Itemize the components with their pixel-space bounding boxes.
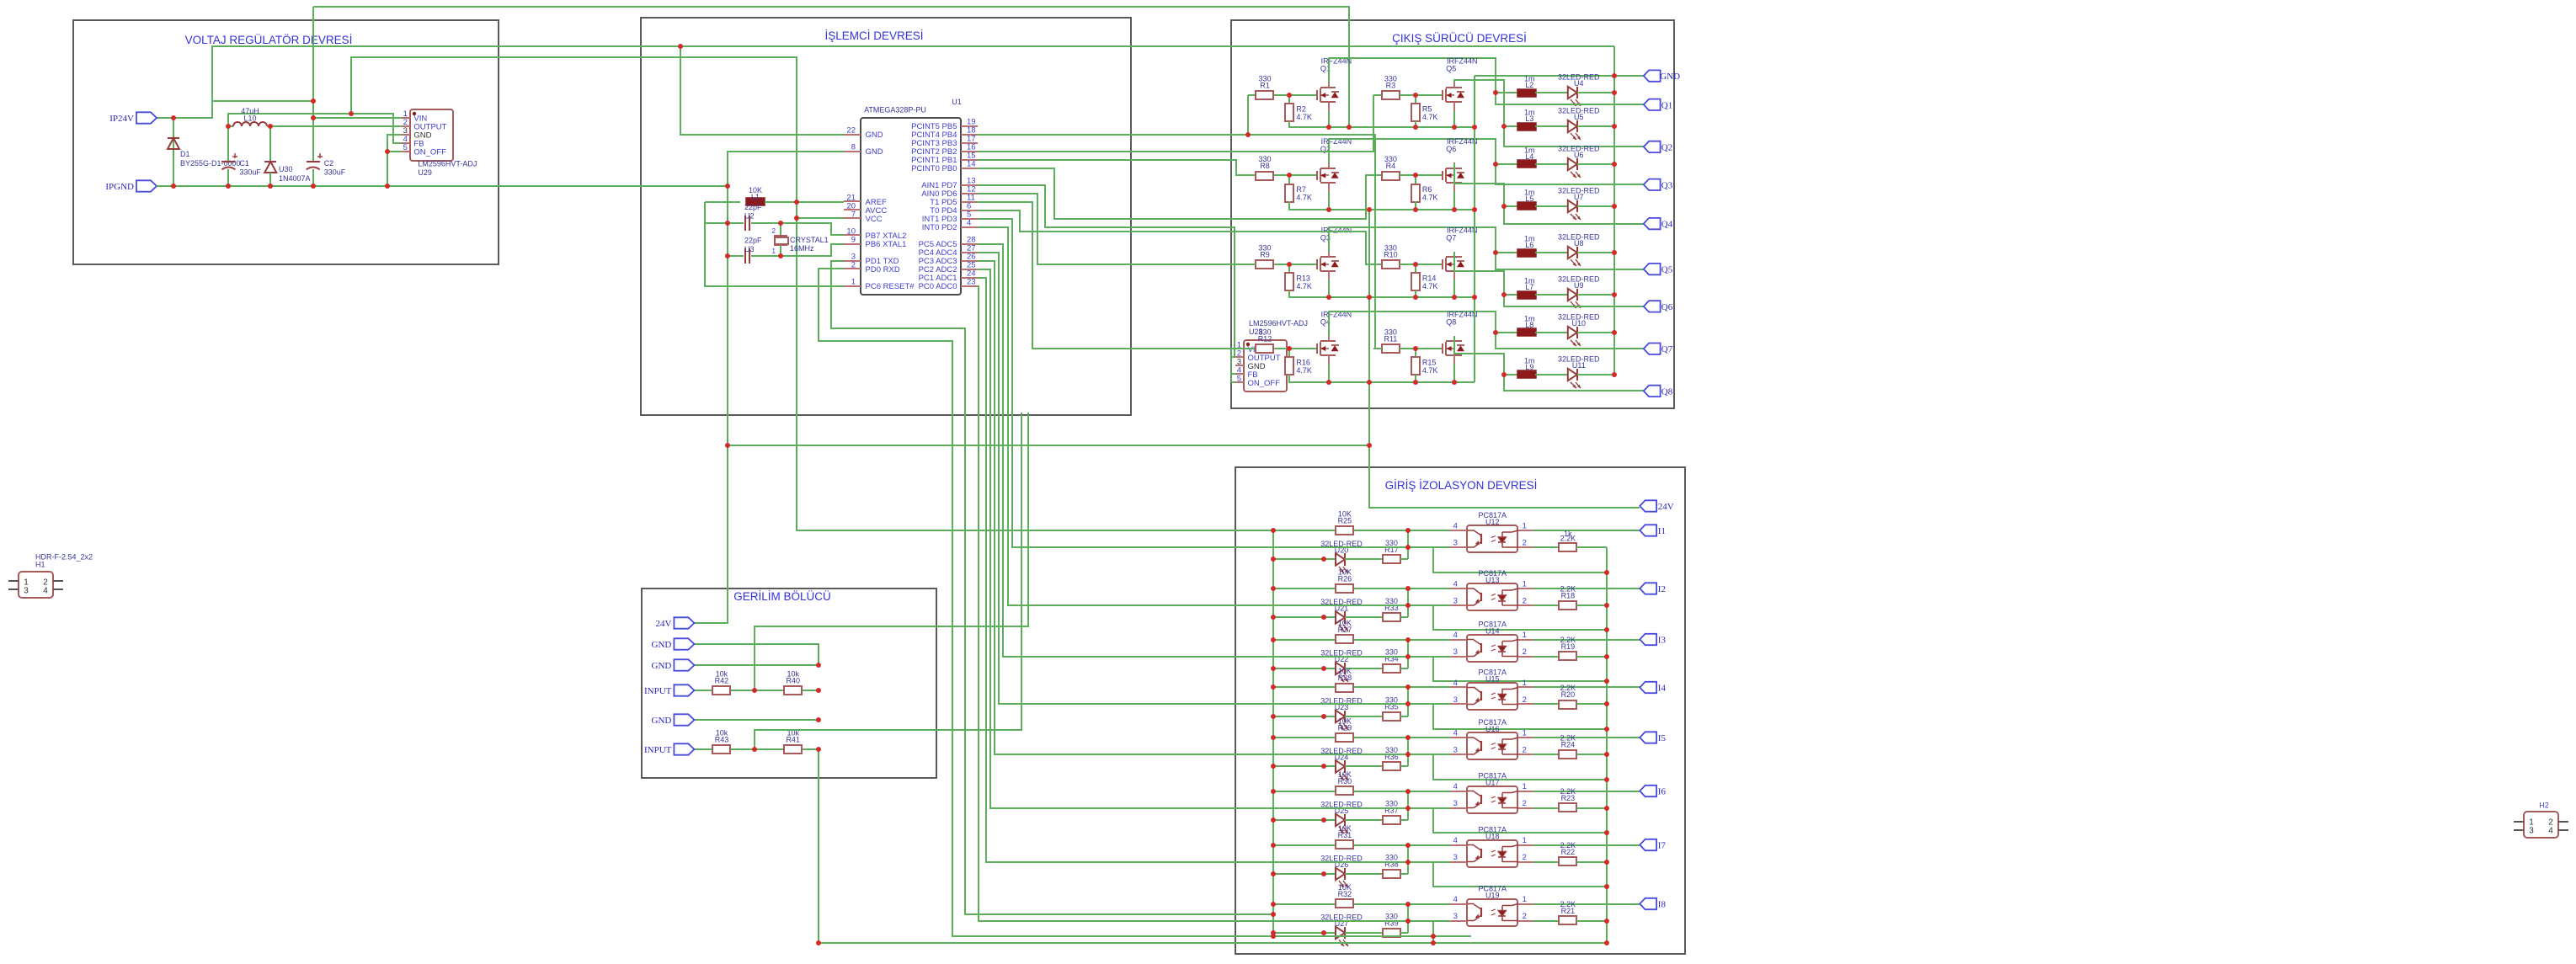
- svg-text:R23: R23: [1561, 794, 1576, 802]
- wire 2.2K to right bus: [1576, 861, 1607, 863]
- pin 14 PCINT0 PB0 U1: [961, 168, 978, 169]
- pin 4 INT0 PD2 U1: [961, 226, 978, 228]
- node dist-rail3: [1367, 295, 1372, 300]
- node source rail Q2: [1326, 207, 1331, 212]
- wire GND1: [694, 644, 819, 665]
- svg-text:R3: R3: [1386, 82, 1396, 90]
- resistor R16: [1285, 357, 1293, 375]
- capacitor C2: [307, 161, 320, 162]
- wire pulldown top R13: [1288, 264, 1290, 273]
- wire mid distribution bus: [1368, 210, 1370, 445]
- svg-text:GND: GND: [652, 661, 672, 671]
- wire opto pin2 to 2.2K: [1533, 861, 1559, 863]
- wire output port link L2: [1496, 93, 1644, 104]
- node LED anode U22: [1321, 666, 1326, 671]
- svg-text:R14: R14: [1422, 274, 1437, 282]
- wire to opto pin4: [1354, 686, 1408, 688]
- node collector U19: [1405, 902, 1411, 907]
- LED U21: [1336, 611, 1345, 623]
- wire source Q7 to rail: [1453, 280, 1455, 297]
- svg-text:22pF: 22pF: [744, 203, 762, 211]
- svg-text:4: 4: [1453, 895, 1458, 904]
- resistor R2: [1285, 104, 1293, 121]
- svg-text:2.2K: 2.2K: [1560, 535, 1576, 543]
- node bottom-loop8: [1431, 940, 1436, 945]
- resistor R31: [1336, 840, 1353, 849]
- svg-text:GND: GND: [652, 716, 672, 726]
- wire source Q5 to rail: [1453, 111, 1455, 127]
- wire 24Vout rail to processor and isolation bus: [351, 57, 1273, 530]
- wire gate feed row4 left: [1248, 348, 1256, 349]
- junction IPGND x=460: [385, 184, 390, 189]
- svg-text:2: 2: [1523, 853, 1527, 862]
- wire 10K row R26: [1273, 588, 1336, 589]
- svg-text:4: 4: [967, 219, 971, 228]
- svg-text:U9: U9: [1574, 281, 1584, 290]
- resistor R41: [784, 745, 802, 754]
- block frame: İŞLEMCİ DEVRESİ: [641, 18, 1131, 415]
- wire PD4 to Q7 gate: [978, 210, 1373, 264]
- wire LED row L3: [1504, 125, 1517, 127]
- wire LED row L5: [1504, 205, 1517, 207]
- svg-text:1: 1: [1523, 522, 1527, 531]
- svg-text:L7: L7: [1525, 283, 1533, 291]
- node LED-GND U6: [1612, 162, 1617, 167]
- optocoupler U15 PC817A: [1467, 683, 1517, 710]
- wire output port link L5: [1504, 206, 1644, 224]
- node FB-L10: [226, 124, 231, 129]
- wire VIN vertical to C2: [312, 7, 314, 162]
- node gnd bus 855: [816, 717, 821, 722]
- wire R42-R40: [731, 690, 784, 691]
- node xtal1 junction: [778, 253, 783, 258]
- svg-text:L2: L2: [1525, 81, 1533, 89]
- capacitor U2: [744, 216, 746, 231]
- node bus LED U20: [1271, 557, 1276, 562]
- pin 19 PCINT5 PB5 U1: [961, 125, 978, 127]
- capacitor C1: [221, 161, 235, 162]
- wire PD1 TXD route: [831, 261, 1273, 914]
- wire pulldown top R7: [1288, 175, 1290, 184]
- svg-text:R38: R38: [1384, 860, 1399, 868]
- wire 2.2K to right bus: [1576, 656, 1607, 658]
- wire opto pin2 to 2.2K: [1533, 546, 1559, 548]
- svg-text:4: 4: [1453, 836, 1458, 845]
- capacitor C1 branch: [227, 126, 229, 162]
- junction IPGND x=271.4: [226, 184, 231, 189]
- wire opto pin2 to 2.2K: [1533, 754, 1559, 755]
- wire opto pin1 to port: [1533, 639, 1640, 641]
- resistor R22: [1559, 857, 1576, 865]
- resistor R12: [1256, 344, 1273, 353]
- wire drain Q1: [1329, 58, 1496, 93]
- node loop U15: [1604, 727, 1609, 732]
- block frame: GERİLİM BÖLÜCÜ: [642, 589, 936, 778]
- svg-text:İŞLEMCİ DEVRESİ: İŞLEMCİ DEVRESİ: [824, 29, 923, 42]
- node U30 top: [268, 124, 273, 129]
- svg-text:I8: I8: [1658, 900, 1667, 910]
- wire source Q1 to rail: [1328, 111, 1330, 127]
- wire gate line extension to Q8 feed: [1248, 135, 1382, 349]
- node gnd bus 890: [816, 747, 821, 752]
- wire opto pin2 to 2.2K: [1533, 656, 1559, 658]
- node LED-GND U9: [1612, 292, 1617, 297]
- resistor R18: [1559, 601, 1576, 610]
- svg-text:R27: R27: [1338, 626, 1352, 634]
- wire drain Q4: [1329, 312, 1496, 336]
- svg-text:U11: U11: [1572, 361, 1586, 370]
- svg-text:22: 22: [846, 126, 856, 136]
- wire indicator vertical: [1407, 904, 1409, 933]
- regulator U28 LM2596HVT-ADJ: [1244, 340, 1287, 391]
- svg-text:R40: R40: [786, 677, 800, 685]
- svg-text:U6: U6: [1574, 151, 1584, 159]
- port GND: [674, 659, 694, 670]
- inductor L6: [1517, 249, 1536, 257]
- wire opto pin3 line: [1408, 807, 1450, 809]
- node LED-GND U8: [1612, 250, 1617, 255]
- wire gate row3 right: [1400, 264, 1443, 265]
- wire source Q6 to rail: [1453, 191, 1455, 210]
- node bus R32: [1271, 902, 1276, 907]
- svg-text:R16: R16: [1296, 358, 1310, 366]
- node loop U17: [1604, 830, 1609, 835]
- node gate-pulldown R6: [1413, 173, 1418, 178]
- junction IPGND x=371.7: [311, 184, 316, 189]
- LED U5: [1568, 120, 1577, 132]
- svg-text:R12: R12: [1258, 335, 1272, 344]
- svg-text:23: 23: [967, 278, 976, 287]
- wire opto pin1 to port: [1533, 737, 1640, 738]
- resistor R35: [1383, 712, 1400, 721]
- svg-text:3: 3: [1453, 746, 1458, 755]
- node rail bus 249: [1472, 207, 1477, 212]
- transistor Q7: [1442, 259, 1443, 269]
- svg-text:9: 9: [851, 236, 856, 245]
- node loop U19: [1604, 940, 1609, 945]
- wire IP24V rail across top to GND bus: [212, 46, 1614, 118]
- pin 25 PC2 ADC2 U1: [961, 269, 978, 270]
- wire drain Q8: [1454, 336, 1504, 375]
- resistor R32: [1336, 899, 1353, 908]
- svg-text:L8: L8: [1525, 321, 1533, 329]
- resistor R42: [712, 686, 730, 695]
- svg-text:4: 4: [1453, 679, 1458, 688]
- node dist-gnd line: [1367, 443, 1372, 448]
- resistor R30: [1336, 786, 1353, 795]
- wire output port link L8: [1496, 333, 1644, 349]
- svg-text:I5: I5: [1658, 733, 1667, 743]
- inductor L5: [1517, 202, 1536, 210]
- wire top 24V rail to output block: [313, 7, 1349, 127]
- node bus LED U26: [1271, 871, 1276, 876]
- svg-text:U7: U7: [1574, 193, 1584, 201]
- svg-text:R6: R6: [1422, 185, 1432, 194]
- svg-text:R22: R22: [1561, 848, 1576, 856]
- svg-text:1: 1: [772, 248, 776, 255]
- LED U26: [1336, 868, 1345, 880]
- svg-text:4.7K: 4.7K: [1422, 113, 1438, 121]
- svg-text:4.7K: 4.7K: [1296, 194, 1312, 202]
- pin 3 PD1 TXD U1: [844, 260, 861, 262]
- pin 15 PCINT1 PB1 U1: [961, 159, 978, 161]
- node dist-rail4: [1367, 380, 1372, 385]
- node source rail Q4: [1326, 380, 1331, 385]
- wire R43-R41: [731, 748, 784, 750]
- wire opto pin3 line: [1408, 703, 1450, 705]
- node bus R26: [1271, 586, 1276, 591]
- node LED row left L6: [1493, 250, 1498, 255]
- wire opto pin2 to 2.2K: [1533, 920, 1559, 922]
- node LED row left L9: [1501, 372, 1507, 377]
- pin 20 AVCC U1: [844, 209, 861, 210]
- node gate-pulldown R15: [1413, 346, 1418, 351]
- svg-text:U19: U19: [1485, 892, 1500, 900]
- node pin3 U17: [1405, 806, 1411, 811]
- wire gnd link to isolation 24V port: [728, 445, 1640, 508]
- node gate-pulldown R7: [1287, 173, 1292, 178]
- svg-text:2: 2: [1523, 912, 1527, 921]
- svg-text:2: 2: [1523, 647, 1527, 657]
- node LED anode U21: [1321, 615, 1326, 620]
- svg-text:U10: U10: [1572, 319, 1587, 328]
- svg-text:24V: 24V: [655, 619, 671, 629]
- pin 5 INT1 PD3 U1: [961, 218, 978, 220]
- svg-text:22pF: 22pF: [744, 237, 762, 245]
- node source rail Q5: [1452, 125, 1457, 130]
- wire GND bus vertical: [1613, 46, 1615, 375]
- node bus-U2row: [725, 221, 730, 226]
- wire pulldown top R14: [1415, 264, 1416, 273]
- wire indicator vertical: [1407, 687, 1409, 716]
- wire LED to 330: [1345, 765, 1383, 767]
- wire output port link L9: [1504, 375, 1644, 391]
- pin 22 GND U1: [844, 134, 861, 136]
- svg-text:3: 3: [24, 587, 29, 596]
- wire gate feed row4 right: [1373, 348, 1382, 349]
- transistor Q2: [1316, 171, 1318, 180]
- wire indicator vertical: [1407, 640, 1409, 668]
- resistor R39: [1383, 929, 1400, 937]
- wire feedback loop: [1433, 754, 1607, 780]
- wire pulldown bottom to rail: [1289, 121, 1475, 127]
- wire LED row U23: [1273, 716, 1336, 717]
- node collector U13: [1405, 586, 1411, 591]
- wire feedback loop: [1433, 657, 1607, 681]
- block frame: VOLTAJ REGÜLATÖR DEVRESİ: [73, 20, 499, 264]
- port GND: [1644, 70, 1661, 81]
- resistor R10: [1382, 260, 1400, 269]
- node LED-GND U7: [1612, 204, 1617, 209]
- wire inductor to LED U8: [1535, 252, 1568, 253]
- wire drain Q7: [1454, 252, 1504, 295]
- port I5: [1640, 732, 1656, 743]
- port Q5: [1644, 264, 1661, 274]
- wire output port link L6: [1496, 253, 1644, 269]
- wire LED row L6: [1496, 252, 1517, 253]
- svg-text:2: 2: [1523, 597, 1527, 606]
- node collector U16: [1405, 735, 1411, 740]
- pin 24 PC1 ADC1 U1: [961, 277, 978, 279]
- wire LED row U27: [1273, 932, 1336, 934]
- svg-text:L10: L10: [243, 115, 256, 123]
- inductor L9: [1517, 370, 1536, 378]
- junction IPGND x=206: [171, 184, 176, 189]
- node gate-pulldown R13: [1287, 262, 1292, 267]
- svg-text:U15: U15: [1485, 675, 1500, 684]
- LED U27: [1336, 927, 1345, 939]
- wire pulldown bottom to rail: [1289, 290, 1475, 297]
- svg-text:Q7: Q7: [1446, 233, 1456, 242]
- wire PB4 to driver Q1/Q8 gates: [978, 95, 1248, 135]
- optocoupler U14 PC817A: [1467, 635, 1517, 662]
- node bus R25: [1271, 528, 1276, 533]
- svg-text:R9: R9: [1260, 251, 1270, 259]
- resistor R29: [1336, 733, 1353, 742]
- wire rails bus to GND port: [1474, 76, 1475, 382]
- resistor R13: [1285, 273, 1293, 290]
- wire 330 to vertical: [1400, 616, 1408, 618]
- svg-text:U18: U18: [1485, 833, 1500, 841]
- resistor R17: [1383, 555, 1400, 563]
- wire LED row U22: [1273, 668, 1336, 669]
- wire source Q2 to rail: [1328, 191, 1330, 210]
- svg-text:1: 1: [1523, 580, 1527, 589]
- header H2: [2524, 812, 2558, 838]
- inductor L3: [1517, 123, 1536, 130]
- wire 2.2K to right bus: [1576, 920, 1607, 922]
- svg-text:GND: GND: [652, 640, 672, 650]
- port I6: [1640, 786, 1656, 796]
- node bottom-gerilim: [816, 940, 821, 945]
- svg-text:4: 4: [1453, 631, 1458, 640]
- resistor R19: [1559, 652, 1576, 660]
- node top rail branch: [678, 44, 683, 49]
- node loop U14: [1604, 679, 1609, 684]
- node gnd-529 branch: [725, 443, 730, 448]
- wire gate row4 left: [1274, 348, 1317, 349]
- wire 2.2K to right bus: [1576, 546, 1607, 548]
- svg-text:3: 3: [1453, 539, 1458, 548]
- port I7: [1640, 839, 1656, 850]
- optocoupler U12 PC817A: [1467, 525, 1517, 552]
- wire opto pin3 line: [1408, 546, 1450, 548]
- svg-text:R1: R1: [1260, 82, 1270, 90]
- pin 17 PCINT3 PB3 U1: [961, 142, 978, 144]
- LED U7: [1568, 200, 1577, 212]
- svg-text:R37: R37: [1384, 806, 1399, 814]
- svg-text:R5: R5: [1422, 105, 1432, 114]
- svg-text:PC6 RESET#: PC6 RESET#: [866, 282, 915, 291]
- node pin2 bus U17: [1604, 806, 1609, 811]
- port INPUT: [674, 684, 694, 695]
- wire INT1 to opto cell 1: [978, 219, 1408, 547]
- resistor R7: [1285, 184, 1293, 202]
- LED U10: [1568, 327, 1577, 338]
- svg-text:4: 4: [43, 587, 48, 596]
- svg-text:R32: R32: [1338, 890, 1352, 898]
- wire inductor to LED U6: [1535, 163, 1568, 165]
- svg-text:24V: 24V: [1658, 502, 1674, 512]
- node LED row left L8: [1493, 330, 1498, 335]
- svg-text:4: 4: [1453, 522, 1458, 531]
- wire to opto pin4: [1354, 791, 1408, 792]
- inductor L10 47uH: [228, 125, 233, 127]
- port IP24V: [136, 112, 157, 123]
- wire gate feed row2 left: [1248, 174, 1256, 176]
- node pin3 U14: [1405, 654, 1411, 659]
- svg-text:U12: U12: [1485, 518, 1500, 526]
- wire drain Q5: [1454, 80, 1504, 126]
- wire gate feed row1 left: [1248, 94, 1256, 96]
- port Q2: [1644, 141, 1661, 152]
- pin 11 T1 PD5 U1: [961, 201, 978, 203]
- svg-text:1: 1: [1523, 895, 1527, 904]
- svg-text:Q4: Q4: [1661, 220, 1673, 230]
- svg-text:3: 3: [1453, 799, 1458, 808]
- node vin-rail: [311, 99, 316, 104]
- wire LED cathode to GND bus: [1577, 163, 1614, 165]
- node pin2 bus U13: [1604, 603, 1609, 608]
- wire 10K row R27: [1273, 639, 1336, 641]
- wire to opto pin4: [1354, 844, 1408, 846]
- capacitor U2 22pF row: [705, 222, 744, 224]
- wire divider tap2 to ADC: [755, 413, 1021, 749]
- wire indicator vertical: [1407, 530, 1409, 559]
- wire gate row3 left: [1274, 264, 1317, 265]
- node rail bus 151: [1472, 125, 1477, 130]
- resistor R20: [1559, 700, 1576, 709]
- inductor L4: [1517, 160, 1536, 168]
- svg-text:14: 14: [967, 160, 976, 169]
- wire pulldown top R15: [1415, 349, 1416, 357]
- wire output port link L4: [1496, 164, 1644, 184]
- svg-text:330uF: 330uF: [239, 168, 261, 177]
- svg-text:4: 4: [1453, 782, 1458, 791]
- resistor R43: [712, 745, 730, 754]
- wire gate feed row3 left: [1248, 264, 1256, 265]
- wire GND8 bus: [728, 152, 844, 256]
- svg-text:ON_OFF: ON_OFF: [413, 148, 446, 157]
- wire OUTPUT pin2: [267, 125, 402, 127]
- mcu U1 ATMEGA328P-PU: [861, 118, 961, 295]
- wire R40 right: [803, 690, 819, 691]
- svg-text:U1: U1: [952, 98, 962, 106]
- pin 27 PC4 ADC4 U1: [961, 252, 978, 253]
- svg-text:2: 2: [1523, 746, 1527, 755]
- node FB-rail24: [349, 111, 354, 116]
- svg-text:I7: I7: [1658, 841, 1667, 851]
- node IP24V-D1: [171, 115, 176, 120]
- wire to opto pin4: [1354, 737, 1408, 738]
- wire feedback loop: [1433, 704, 1607, 729]
- header H1: [19, 572, 53, 598]
- svg-text:R15: R15: [1422, 358, 1437, 366]
- LED U11: [1568, 369, 1577, 381]
- node bus R29: [1271, 735, 1276, 740]
- wire to opto pin4: [1354, 588, 1408, 589]
- inductor L8: [1517, 328, 1536, 336]
- wire ADC1 to opto cell 7: [978, 278, 1408, 862]
- block frame: GİRİŞ İZOLASYON DEVRESİ: [1235, 467, 1685, 954]
- svg-text:IP24V: IP24V: [109, 114, 134, 124]
- wire 330 to vertical: [1400, 932, 1408, 934]
- resistor R38: [1383, 870, 1400, 878]
- pin 2 PD0 RXD U1: [844, 268, 861, 269]
- wire pulldown bottom to rail: [1289, 375, 1475, 382]
- svg-text:4.7K: 4.7K: [1422, 366, 1438, 375]
- node source rail Q6: [1452, 207, 1457, 212]
